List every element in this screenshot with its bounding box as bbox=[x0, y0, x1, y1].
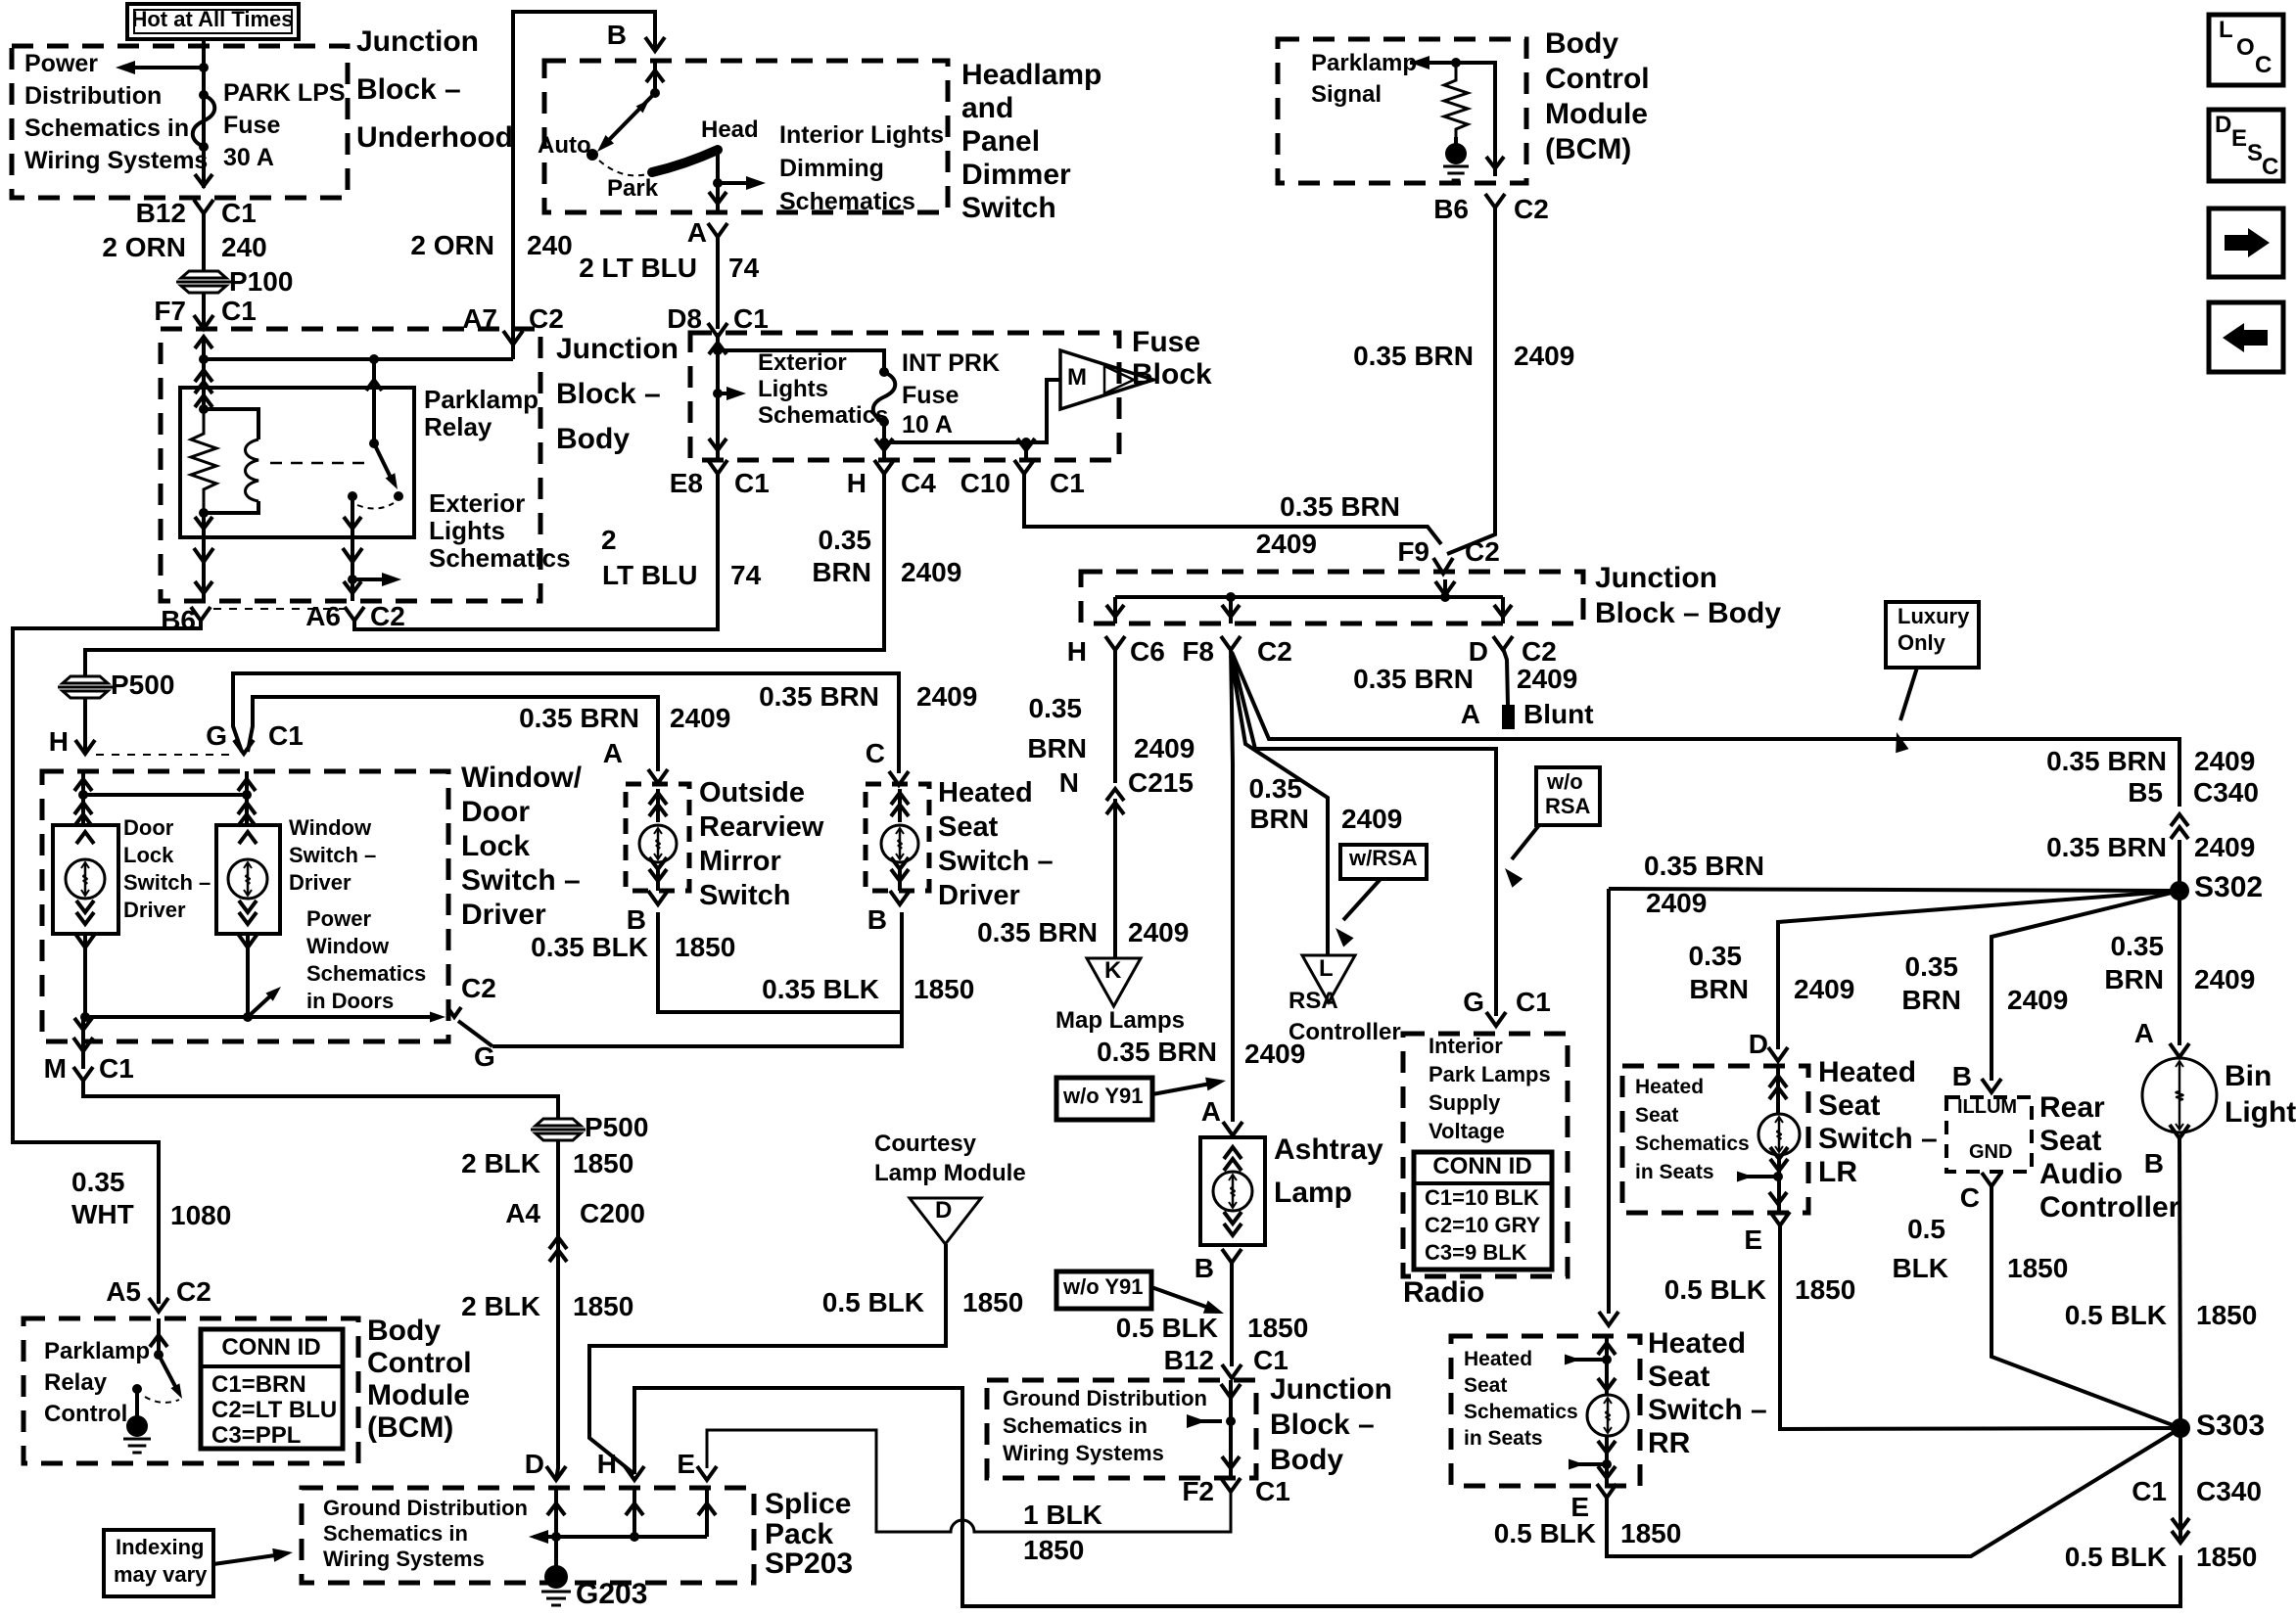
resistor bcm bbox=[1444, 63, 1468, 137]
svg-text:1850: 1850 bbox=[1795, 1274, 1855, 1305]
wire S302 to bin light bbox=[2134, 891, 2189, 1057]
connector F2 C1 bbox=[1182, 1476, 1289, 1506]
label Heated Seat Switch Driver bbox=[938, 777, 1054, 911]
label D heated LR bbox=[1749, 1029, 1768, 1059]
svg-text:Rear: Rear bbox=[2039, 1091, 2105, 1124]
connector B heated driver bbox=[867, 891, 910, 935]
connector E heated LR bbox=[1744, 1212, 1790, 1255]
svg-text:C2: C2 bbox=[529, 303, 564, 334]
connector G C1 bbox=[206, 720, 304, 754]
relay coil feed chevron bbox=[195, 359, 212, 393]
svg-text:may vary: may vary bbox=[114, 1562, 208, 1587]
svg-text:0.5 BLK: 0.5 BLK bbox=[1664, 1274, 1766, 1305]
label Heated Seat Switch RR bbox=[1648, 1327, 1767, 1459]
svg-text:Ashtray: Ashtray bbox=[1274, 1133, 1383, 1166]
svg-text:Schematics in: Schematics in bbox=[1003, 1413, 1148, 1438]
svg-text:G: G bbox=[206, 720, 227, 751]
connector C gnd bbox=[1960, 1173, 2001, 1213]
flag box Luxury Only bbox=[1886, 602, 1979, 668]
note Power Distribution Schematics in Wiring Systems bbox=[24, 50, 208, 174]
svg-text:C2=10 GRY: C2=10 GRY bbox=[1425, 1213, 1541, 1237]
svg-text:Window: Window bbox=[306, 934, 390, 958]
svg-text:Fuse: Fuse bbox=[223, 112, 280, 139]
label 0.35 BRN 2409 luxury right bbox=[2046, 746, 2255, 776]
label Outside Rearview Mirror Switch bbox=[699, 777, 824, 911]
svg-text:2409: 2409 bbox=[1794, 974, 1854, 1004]
wire P500 to H bbox=[75, 698, 95, 754]
label 0.5 BLK 1850 courtesy bbox=[822, 1287, 1024, 1317]
svg-text:BLK: BLK bbox=[1892, 1253, 1948, 1283]
svg-text:Courtesy: Courtesy bbox=[874, 1131, 977, 1157]
svg-text:Switch –: Switch – bbox=[938, 846, 1054, 877]
svg-text:S: S bbox=[2247, 140, 2263, 166]
wire B5 to S302 bbox=[2178, 840, 2181, 891]
svg-text:Voltage: Voltage bbox=[1429, 1119, 1505, 1143]
svg-text:Exterior: Exterior bbox=[429, 488, 525, 518]
svg-text:in Seats: in Seats bbox=[1464, 1427, 1543, 1450]
label 0.35 BRN 2409 illum B bbox=[1901, 951, 2068, 1015]
svg-text:M: M bbox=[44, 1053, 67, 1084]
svg-text:C: C bbox=[2255, 52, 2272, 78]
svg-text:C1: C1 bbox=[1255, 1476, 1290, 1506]
label 0.35 BRN 2409 fuseblock H bbox=[812, 525, 961, 587]
wire ashtray B to B12 bbox=[1230, 1263, 1234, 1366]
svg-text:Wiring Systems: Wiring Systems bbox=[24, 147, 208, 174]
svg-text:Junction: Junction bbox=[1595, 562, 1717, 594]
ground bcm relay control bbox=[123, 1389, 151, 1453]
svg-text:M: M bbox=[1067, 364, 1087, 391]
svg-text:Seat: Seat bbox=[2039, 1125, 2101, 1157]
svg-text:Headlamp: Headlamp bbox=[961, 59, 1101, 91]
window switch driver bbox=[216, 825, 280, 934]
label 0.35 BRN 2409 LR D bbox=[1689, 941, 1855, 1004]
label 0.5 BLK 1850 LR bbox=[1664, 1274, 1856, 1305]
wire hot feed down bbox=[202, 39, 206, 188]
svg-text:2409: 2409 bbox=[916, 681, 977, 712]
svg-text:Switch –: Switch – bbox=[1818, 1123, 1938, 1155]
svg-text:Seat: Seat bbox=[1818, 1089, 1880, 1122]
door lock switch driver bbox=[53, 825, 118, 934]
wire fuse output bus bbox=[875, 380, 1060, 460]
svg-text:C: C bbox=[1960, 1182, 1980, 1213]
svg-text:Seat: Seat bbox=[1464, 1374, 1507, 1397]
svg-text:2409: 2409 bbox=[1341, 804, 1402, 834]
svg-text:C1: C1 bbox=[1516, 987, 1551, 1017]
label Interior Lights Dimming Schematics bbox=[779, 121, 944, 215]
svg-text:Schematics: Schematics bbox=[779, 188, 915, 215]
wire relay switch out to A6 bbox=[343, 496, 401, 601]
svg-text:Parklamp: Parklamp bbox=[424, 385, 539, 414]
svg-text:B: B bbox=[1195, 1253, 1214, 1283]
connector A4 C200 bbox=[505, 1198, 645, 1262]
svg-text:LT BLU: LT BLU bbox=[602, 560, 697, 590]
relay coil inductor branch bbox=[204, 409, 258, 513]
svg-text:2409: 2409 bbox=[670, 703, 730, 733]
arrow w-o Y91 upper bbox=[1152, 1078, 1226, 1094]
svg-text:0.35: 0.35 bbox=[1905, 951, 1959, 982]
label Parklamp Signal bbox=[1311, 50, 1417, 108]
arrow to power distribution bbox=[116, 61, 209, 74]
svg-text:Distribution: Distribution bbox=[24, 82, 162, 110]
connector B5 C340 bbox=[2128, 777, 2259, 839]
svg-text:Driver: Driver bbox=[289, 870, 351, 895]
svg-text:C1: C1 bbox=[221, 198, 257, 228]
label Parklamp Relay Control bbox=[44, 1338, 150, 1427]
svg-text:Body: Body bbox=[1545, 27, 1618, 60]
wire splice H to bottom run bbox=[634, 1388, 2180, 1606]
svg-text:C2: C2 bbox=[176, 1276, 211, 1307]
svg-text:Parklamp: Parklamp bbox=[1311, 50, 1417, 76]
wire F8 to radio bbox=[1232, 654, 1496, 1016]
label B illum bbox=[1952, 1061, 1972, 1091]
svg-text:A: A bbox=[2134, 1018, 2154, 1048]
ground G203 bbox=[541, 1537, 647, 1610]
label 0.35 BRN 2409 bin light bbox=[2104, 931, 2255, 994]
connector A7 C2 bbox=[462, 303, 564, 334]
svg-text:Bin: Bin bbox=[2225, 1060, 2272, 1092]
connector A5 C2 bbox=[106, 1276, 211, 1312]
svg-text:Door: Door bbox=[123, 815, 174, 840]
svg-text:CONN ID: CONN ID bbox=[221, 1334, 320, 1361]
bcm parklamp signal box bbox=[1278, 39, 1526, 183]
wire H C4 to P500 bbox=[85, 474, 884, 676]
svg-text:Switch: Switch bbox=[961, 192, 1056, 224]
svg-text:D: D bbox=[2215, 112, 2231, 138]
arrow power window schematics bbox=[248, 987, 281, 1017]
wire A to D8 bbox=[716, 237, 720, 329]
label Map Lamps bbox=[1055, 1007, 1185, 1034]
svg-text:G: G bbox=[474, 1041, 495, 1072]
wire B6 bcm to F9 bbox=[1447, 206, 1495, 554]
relay mechanical link dashed bbox=[270, 462, 370, 465]
label Body Control Module BCM bottom bbox=[367, 1315, 472, 1444]
svg-text:1850: 1850 bbox=[1620, 1518, 1681, 1548]
label Headlamp and Panel Dimmer Switch bbox=[961, 59, 1101, 224]
label 0.35 BRN 2409 blunt wire bbox=[1353, 664, 1577, 694]
svg-text:C2: C2 bbox=[461, 973, 496, 1003]
svg-text:2 ORN: 2 ORN bbox=[410, 230, 494, 260]
svg-text:0.35 BRN: 0.35 BRN bbox=[1097, 1037, 1217, 1067]
svg-text:1850: 1850 bbox=[2196, 1300, 2257, 1330]
svg-text:Block – Body: Block – Body bbox=[1595, 597, 1781, 629]
wire relay coil out to B6 bbox=[194, 513, 213, 601]
svg-text:CONN ID: CONN ID bbox=[1432, 1153, 1531, 1179]
connector A headlamp out bbox=[687, 217, 727, 248]
svg-text:Ground Distribution: Ground Distribution bbox=[1003, 1386, 1207, 1410]
flag box w-o Y91 upper bbox=[1056, 1078, 1152, 1120]
connector B ashtray bbox=[1195, 1249, 1242, 1283]
svg-text:1850: 1850 bbox=[1023, 1535, 1084, 1565]
svg-text:Seat: Seat bbox=[1648, 1361, 1710, 1393]
connector H C4 bbox=[847, 460, 936, 498]
svg-text:D: D bbox=[525, 1449, 544, 1479]
svg-text:2409: 2409 bbox=[1256, 529, 1317, 559]
connector B bin light bbox=[2144, 1125, 2189, 1178]
window door ground bus bbox=[75, 934, 439, 1022]
connector C10 C1 bbox=[961, 460, 1085, 498]
svg-text:Dimmer: Dimmer bbox=[961, 159, 1071, 191]
svg-text:C340: C340 bbox=[2193, 777, 2259, 808]
svg-text:0.35 BLK: 0.35 BLK bbox=[531, 932, 648, 962]
svg-text:BRN: BRN bbox=[1249, 804, 1309, 834]
wire P100 to F7 bbox=[202, 293, 206, 329]
svg-text:N: N bbox=[1059, 767, 1079, 798]
label Window Door Lock Switch Driver bbox=[461, 762, 583, 931]
heated seat driver lamp bbox=[881, 789, 918, 891]
connector K triangle map lamps bbox=[1087, 957, 1141, 1006]
svg-text:w/o Y91: w/o Y91 bbox=[1062, 1274, 1144, 1299]
connector F8 C2 bbox=[1182, 636, 1291, 667]
label Junction Block - Body bottom bbox=[1270, 1373, 1392, 1476]
svg-text:Heated: Heated bbox=[1635, 1076, 1704, 1098]
svg-text:Interior: Interior bbox=[1429, 1034, 1503, 1058]
svg-text:D: D bbox=[1749, 1029, 1768, 1059]
svg-text:2 BLK: 2 BLK bbox=[461, 1291, 540, 1321]
svg-text:Relay: Relay bbox=[44, 1369, 108, 1396]
flag box w-o RSA bbox=[1536, 767, 1600, 825]
wire exterior lights tap bbox=[709, 350, 746, 460]
link dash H to G bbox=[96, 754, 233, 756]
svg-text:Head: Head bbox=[701, 116, 759, 143]
svg-text:Block –: Block – bbox=[1270, 1409, 1375, 1441]
connector A ashtray bbox=[1201, 1096, 1242, 1135]
label H window door bbox=[49, 726, 69, 757]
svg-text:Driver: Driver bbox=[938, 880, 1020, 911]
svg-text:C1: C1 bbox=[2132, 1476, 2167, 1506]
svg-text:2409: 2409 bbox=[1646, 888, 1707, 918]
svg-text:1850: 1850 bbox=[2007, 1253, 2068, 1283]
svg-text:0.35 BRN: 0.35 BRN bbox=[2046, 832, 2167, 862]
svg-text:L: L bbox=[1319, 955, 1334, 982]
label Door Lock Switch Driver bbox=[123, 815, 211, 922]
svg-text:Schematics: Schematics bbox=[1464, 1401, 1578, 1423]
svg-text:240: 240 bbox=[221, 232, 267, 262]
label Head bbox=[701, 116, 759, 143]
svg-text:Interior Lights: Interior Lights bbox=[779, 121, 944, 149]
svg-text:Pack: Pack bbox=[765, 1518, 833, 1550]
svg-text:C1: C1 bbox=[1253, 1345, 1289, 1375]
ground bcm internal bbox=[1443, 137, 1469, 180]
junction block body bottom box bbox=[987, 1380, 1256, 1478]
label Body Control Module BCM top bbox=[1545, 27, 1650, 165]
svg-text:1850: 1850 bbox=[573, 1148, 633, 1178]
wire courtesy to splice H bbox=[589, 1244, 946, 1474]
svg-text:w/o: w/o bbox=[1546, 769, 1583, 794]
svg-text:Fuse: Fuse bbox=[902, 382, 959, 409]
svg-text:A: A bbox=[687, 217, 707, 248]
svg-text:Junction: Junction bbox=[556, 333, 679, 365]
svg-text:Wiring Systems: Wiring Systems bbox=[323, 1547, 485, 1571]
ashtray lamp bbox=[1200, 1137, 1265, 1245]
fuse PARK LPS 30A bbox=[193, 90, 215, 152]
connector E8 C1 bbox=[670, 460, 770, 498]
svg-text:Blunt: Blunt bbox=[1523, 699, 1594, 729]
svg-text:C6: C6 bbox=[1130, 636, 1165, 667]
svg-text:C3=9 BLK: C3=9 BLK bbox=[1425, 1240, 1527, 1265]
mirror switch lamp bbox=[639, 789, 677, 891]
label 0.35 BLK 1850 heated bbox=[762, 974, 974, 1004]
illum gnd connector box bbox=[1946, 1096, 2032, 1172]
svg-text:Park: Park bbox=[607, 175, 659, 202]
label 0.5 BLK 1850 ashtray bbox=[1116, 1313, 1309, 1343]
svg-text:1850: 1850 bbox=[573, 1291, 633, 1321]
svg-text:Body: Body bbox=[556, 423, 630, 455]
label Courtesy Lamp Module bbox=[874, 1131, 1026, 1186]
label 0.5 BLK 1850 RR bbox=[1494, 1518, 1682, 1548]
svg-text:Schematics: Schematics bbox=[306, 961, 426, 986]
wire G to switch grounds bbox=[492, 912, 902, 1046]
label Heated Seat Switch LR bbox=[1818, 1056, 1938, 1188]
svg-text:A4: A4 bbox=[505, 1198, 540, 1228]
svg-text:Park Lamps: Park Lamps bbox=[1429, 1062, 1551, 1086]
svg-text:Lights: Lights bbox=[429, 516, 505, 545]
svg-text:Relay: Relay bbox=[424, 412, 492, 441]
svg-text:D8: D8 bbox=[667, 303, 702, 334]
wire G to heated seat C bbox=[233, 673, 909, 785]
svg-text:A: A bbox=[1461, 699, 1480, 729]
svg-text:L: L bbox=[2219, 17, 2233, 43]
svg-text:B5: B5 bbox=[2128, 777, 2163, 808]
svg-text:0.35: 0.35 bbox=[1689, 941, 1743, 971]
link dashes B6 A6 bbox=[213, 608, 345, 610]
svg-text:C2: C2 bbox=[1514, 194, 1549, 224]
arrow indexing may vary bbox=[213, 1548, 293, 1564]
headlamp switch arm bbox=[586, 61, 664, 161]
flag box w slash RSA bbox=[1340, 845, 1427, 879]
svg-text:0.35 BRN: 0.35 BRN bbox=[519, 703, 639, 733]
svg-text:Control: Control bbox=[1545, 63, 1650, 95]
label Junction Block - Body left bbox=[556, 333, 679, 455]
connector F7 C1 bbox=[154, 296, 256, 329]
svg-text:Lock: Lock bbox=[461, 830, 530, 862]
label 0.35 BRN 2409 mirror A bbox=[519, 703, 730, 733]
svg-text:Heated: Heated bbox=[938, 777, 1033, 808]
fuse block feed bus bbox=[709, 333, 884, 370]
svg-text:1850: 1850 bbox=[675, 932, 735, 962]
svg-text:0.35 BRN: 0.35 BRN bbox=[759, 681, 879, 712]
svg-text:74: 74 bbox=[728, 253, 760, 283]
svg-text:H: H bbox=[847, 468, 867, 498]
junction block underhood box bbox=[12, 46, 348, 198]
svg-text:B12: B12 bbox=[1164, 1345, 1214, 1375]
connector C2 G exit bbox=[430, 973, 496, 1072]
svg-text:Splice: Splice bbox=[765, 1488, 851, 1520]
svg-text:Heated: Heated bbox=[1648, 1327, 1746, 1360]
svg-text:H: H bbox=[1067, 636, 1087, 667]
label RSA Controller bbox=[1289, 988, 1401, 1045]
svg-text:30 A: 30 A bbox=[223, 144, 274, 171]
svg-text:F2: F2 bbox=[1182, 1476, 1214, 1506]
svg-text:w/RSA: w/RSA bbox=[1348, 846, 1418, 870]
svg-text:Control: Control bbox=[367, 1347, 472, 1379]
svg-text:2 ORN: 2 ORN bbox=[102, 232, 186, 262]
note Ground Distribution bottom jb bbox=[1003, 1386, 1207, 1465]
label 0.5 BLK 1850 bin bbox=[2065, 1300, 2258, 1330]
connector P500 left bbox=[58, 670, 174, 700]
svg-text:LR: LR bbox=[1818, 1156, 1857, 1188]
svg-text:A: A bbox=[603, 738, 623, 768]
svg-text:ILLUM: ILLUM bbox=[1957, 1096, 2017, 1118]
relay coil resistor branch bbox=[191, 388, 216, 518]
splice pack internal bus bbox=[529, 1488, 716, 1544]
svg-text:2409: 2409 bbox=[2194, 964, 2255, 994]
svg-text:C2: C2 bbox=[1257, 636, 1292, 667]
svg-text:Controller: Controller bbox=[2039, 1191, 2180, 1224]
svg-text:O: O bbox=[2236, 34, 2255, 61]
svg-text:A7: A7 bbox=[462, 303, 497, 334]
svg-text:Switch: Switch bbox=[699, 880, 790, 911]
svg-text:C10: C10 bbox=[961, 468, 1010, 498]
svg-text:F9: F9 bbox=[1397, 536, 1429, 567]
svg-text:Outside: Outside bbox=[699, 777, 805, 808]
svg-text:B6: B6 bbox=[161, 605, 196, 635]
svg-text:0.35 BRN: 0.35 BRN bbox=[1353, 664, 1474, 694]
svg-text:Lamp: Lamp bbox=[1274, 1177, 1352, 1209]
button LOC bbox=[2209, 15, 2283, 85]
svg-text:E: E bbox=[1744, 1224, 1762, 1255]
wire through bottom jb bbox=[1187, 1380, 1241, 1478]
arrow into box bottom bbox=[195, 174, 212, 186]
label 0.35 BRN 2409 top left S302 bbox=[1644, 851, 1764, 918]
svg-text:C: C bbox=[2262, 154, 2278, 180]
wire gnd C to S303 bbox=[1991, 1186, 2180, 1428]
svg-text:2409: 2409 bbox=[2194, 832, 2255, 862]
svg-text:F8: F8 bbox=[1182, 636, 1214, 667]
connector F9 C2 bbox=[1397, 536, 1499, 574]
svg-text:Body: Body bbox=[367, 1315, 441, 1347]
svg-text:2409: 2409 bbox=[1517, 664, 1577, 694]
window door lock switch box bbox=[42, 771, 448, 1041]
svg-text:Module: Module bbox=[367, 1379, 470, 1411]
svg-text:C215: C215 bbox=[1128, 767, 1194, 798]
junction block body right box bbox=[1081, 572, 1583, 624]
fuse block box bbox=[690, 333, 1119, 460]
svg-text:Radio: Radio bbox=[1403, 1276, 1484, 1309]
label 0.35 BRN 2409 above K bbox=[977, 917, 1189, 947]
svg-text:2409: 2409 bbox=[2194, 746, 2255, 776]
label Auto bbox=[538, 132, 591, 159]
heated seat LR lamp bbox=[1737, 1066, 1800, 1213]
svg-text:0.35 BRN: 0.35 BRN bbox=[977, 917, 1098, 947]
svg-text:Heated: Heated bbox=[1464, 1348, 1532, 1370]
svg-text:INT PRK: INT PRK bbox=[902, 349, 1000, 377]
svg-text:0.35: 0.35 bbox=[1249, 773, 1303, 804]
svg-text:2409: 2409 bbox=[1514, 341, 1574, 371]
svg-text:Seat: Seat bbox=[1635, 1104, 1678, 1127]
flag box w-o Y91 lower bbox=[1056, 1271, 1151, 1309]
connector D splice bbox=[525, 1449, 566, 1480]
svg-text:(BCM): (BCM) bbox=[367, 1411, 453, 1444]
button next arrow bbox=[2209, 208, 2283, 277]
wire A6 to E8 2 LT BLU bbox=[354, 474, 718, 629]
svg-text:Switch –: Switch – bbox=[123, 870, 211, 895]
label 0.35 BRN 2409 above S302 bbox=[2046, 832, 2255, 862]
connector D triangle courtesy bbox=[910, 1197, 981, 1244]
svg-text:C1: C1 bbox=[1050, 468, 1085, 498]
splice S303 bbox=[2171, 1409, 2265, 1442]
svg-text:2 BLK: 2 BLK bbox=[461, 1148, 540, 1178]
svg-text:Door: Door bbox=[461, 796, 530, 828]
wire head output bbox=[709, 152, 766, 212]
wire M to P500 lower bbox=[83, 1081, 558, 1120]
svg-text:Seat: Seat bbox=[938, 811, 999, 843]
wire B12 to P100 bbox=[202, 213, 206, 271]
switch position dashed arc bbox=[599, 161, 647, 175]
label Parklamp Relay bbox=[424, 385, 539, 441]
svg-text:Window: Window bbox=[289, 815, 372, 840]
svg-text:BRN: BRN bbox=[1027, 733, 1087, 763]
svg-text:(BCM): (BCM) bbox=[1545, 133, 1631, 165]
